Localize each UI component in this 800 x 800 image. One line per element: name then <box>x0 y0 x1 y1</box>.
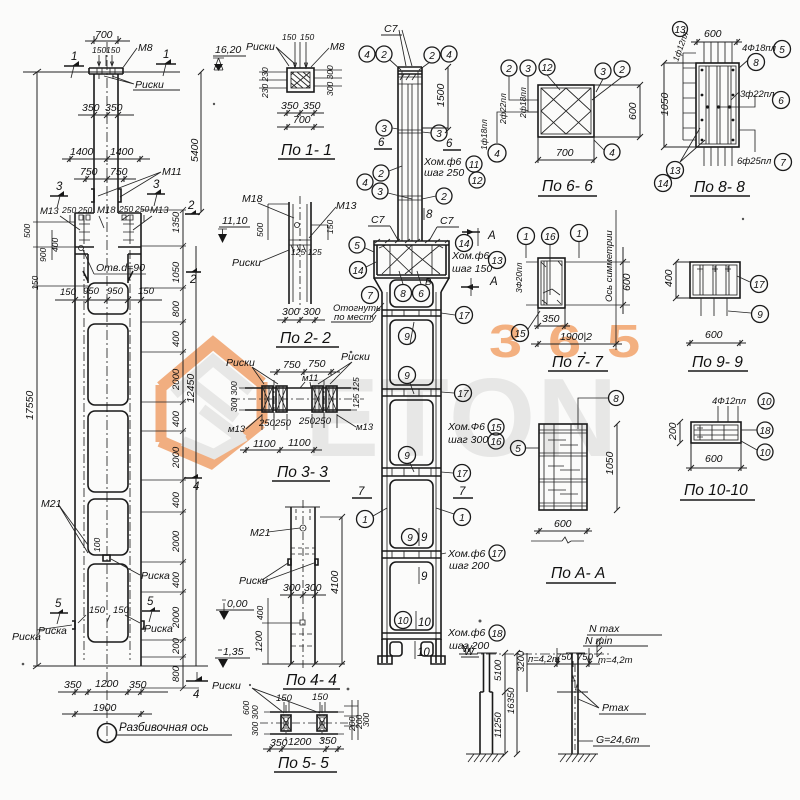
svg-text:Разбивочная ось: Разбивочная ось <box>119 722 209 734</box>
ground hatching right <box>558 753 598 755</box>
rung 1 <box>382 310 441 316</box>
svg-text:400: 400 <box>171 491 182 508</box>
svg-text:Риска: Риска <box>38 625 67 637</box>
svg-text:150: 150 <box>30 276 40 290</box>
svg-text:11: 11 <box>469 160 479 171</box>
main rect <box>696 63 739 147</box>
opening 5 <box>88 564 128 642</box>
svg-text:750: 750 <box>283 359 301 371</box>
svg-text:2000: 2000 <box>171 530 182 553</box>
svg-text:350: 350 <box>303 100 321 112</box>
cage outer verticals <box>382 292 441 640</box>
svg-text:300: 300 <box>361 713 371 727</box>
centerline <box>468 653 610 655</box>
svg-text:5: 5 <box>607 316 640 367</box>
svg-text:3: 3 <box>153 179 160 191</box>
svg-text:250: 250 <box>118 204 133 214</box>
svg-text:7: 7 <box>459 486 466 498</box>
svg-text:1050: 1050 <box>604 451 616 475</box>
svg-text:14: 14 <box>458 239 470 250</box>
svg-text:шаг 300: шаг 300 <box>448 434 488 446</box>
svg-text:8: 8 <box>613 394 619 405</box>
svg-text:1350: 1350 <box>171 211 182 233</box>
svg-text:230 230: 230 230 <box>260 67 270 99</box>
section A-A marker bottom <box>461 286 479 288</box>
section Po 3-3 <box>226 351 374 481</box>
circle 14 <box>456 235 473 252</box>
svg-text:125 125: 125 125 <box>291 247 322 257</box>
top-left circle and label <box>673 22 688 37</box>
svg-text:А: А <box>487 230 496 242</box>
dims <box>502 650 508 757</box>
panel 3 <box>390 480 433 548</box>
base line <box>33 665 208 667</box>
svg-text:200: 200 <box>171 637 182 655</box>
svg-text:10: 10 <box>418 617 431 629</box>
svg-text:950: 950 <box>107 286 124 297</box>
svg-text:150: 150 <box>60 287 77 298</box>
svg-text:900: 900 <box>38 248 48 262</box>
svg-text:По 5- 5: По 5- 5 <box>278 755 329 772</box>
svg-text:3: 3 <box>525 64 531 75</box>
left column elevation <box>12 29 254 744</box>
svg-text:М13: М13 <box>150 205 169 216</box>
svg-text:1050: 1050 <box>659 92 671 116</box>
hole marker <box>79 246 84 251</box>
svg-text:5: 5 <box>354 241 360 252</box>
svg-text:1500: 1500 <box>435 83 447 107</box>
svg-text:1200: 1200 <box>254 630 265 652</box>
svg-text:4Ф12пл: 4Ф12пл <box>712 396 747 407</box>
svg-text:1,35: 1,35 <box>223 646 244 658</box>
svg-text:М8: М8 <box>138 42 153 54</box>
axis circle <box>98 724 117 743</box>
svg-text:400: 400 <box>663 269 675 287</box>
svg-text:А: А <box>489 276 498 288</box>
opening 2 <box>88 324 128 405</box>
shaft riska plates <box>91 189 121 202</box>
svg-text:шаг 250: шаг 250 <box>424 167 464 179</box>
svg-text:1: 1 <box>163 49 169 61</box>
svg-text:9: 9 <box>404 371 410 382</box>
svg-text:По А- А: По А- А <box>551 565 605 582</box>
svg-text:4: 4 <box>193 481 199 493</box>
svg-text:150: 150 <box>300 32 314 42</box>
svg-text:т=4,2т: т=4,2т <box>598 655 633 666</box>
svg-text:В: В <box>425 277 432 288</box>
svg-text:М11: М11 <box>162 166 182 178</box>
svg-text:350: 350 <box>270 737 288 749</box>
opening 3 <box>88 411 128 492</box>
svg-text:750: 750 <box>577 652 594 663</box>
top circles 4 2 2 4 <box>359 46 375 62</box>
watermark 365 <box>489 316 640 367</box>
panel 4 <box>390 562 433 630</box>
svg-text:150: 150 <box>106 45 120 55</box>
overall dim 17550 <box>33 69 41 669</box>
svg-text:3: 3 <box>436 129 442 140</box>
svg-text:4: 4 <box>193 689 199 701</box>
svg-text:5: 5 <box>55 598 62 610</box>
svg-text:150: 150 <box>282 32 296 42</box>
svg-text:по месту: по месту <box>334 312 377 323</box>
svg-text:2: 2 <box>187 200 195 212</box>
svg-text:Хом.ф6: Хом.ф6 <box>451 250 490 262</box>
svg-text:Риски: Риски <box>341 351 370 363</box>
svg-text:500: 500 <box>22 224 32 238</box>
section Po 6-6 <box>479 59 643 196</box>
section Po 10-10 <box>667 393 774 500</box>
svg-text:С7: С7 <box>371 214 386 226</box>
svg-text:7: 7 <box>780 158 786 169</box>
svg-text:1200: 1200 <box>95 678 119 690</box>
svg-text:13: 13 <box>669 166 681 177</box>
svg-text:По 7- 7: По 7- 7 <box>552 354 604 371</box>
svg-text:4: 4 <box>446 50 452 61</box>
svg-text:Риска: Риска <box>141 570 170 582</box>
svg-text:250: 250 <box>77 205 92 215</box>
svg-text:15: 15 <box>490 423 502 434</box>
section Po 7-7 <box>512 210 634 371</box>
svg-text:300 300: 300 300 <box>250 705 260 736</box>
circles 3 6 left <box>376 120 392 136</box>
svg-text:12: 12 <box>471 176 483 187</box>
svg-text:15: 15 <box>514 329 526 340</box>
svg-text:250: 250 <box>61 205 76 215</box>
svg-text:350: 350 <box>64 679 82 691</box>
svg-text:5: 5 <box>147 596 154 608</box>
svg-text:1050: 1050 <box>171 261 182 283</box>
svg-text:250: 250 <box>298 416 316 427</box>
svg-text:17: 17 <box>456 469 468 480</box>
svg-text:9: 9 <box>757 310 763 321</box>
svg-text:9: 9 <box>404 332 410 343</box>
svg-text:1: 1 <box>71 51 77 63</box>
svg-text:Риска: Риска <box>12 631 41 643</box>
svg-text:13: 13 <box>491 256 503 267</box>
svg-text:С7: С7 <box>384 23 399 35</box>
svg-text:ETON: ETON <box>305 356 619 480</box>
circle 2 right <box>436 188 452 204</box>
corbel chamfers <box>374 278 449 292</box>
svg-text:По 6- 6: По 6- 6 <box>542 178 593 195</box>
shaft <box>398 67 422 241</box>
rung 2 <box>382 389 441 396</box>
svg-text:5100: 5100 <box>493 659 504 681</box>
svg-text:1100: 1100 <box>253 438 276 450</box>
left post <box>480 653 493 754</box>
svg-text:М21: М21 <box>250 527 270 539</box>
svg-text:По 10-10: По 10-10 <box>684 482 748 499</box>
svg-text:2: 2 <box>189 274 197 286</box>
svg-text:10: 10 <box>760 397 772 408</box>
rung 5 <box>382 633 441 639</box>
svg-text:250: 250 <box>274 418 292 429</box>
beam with loads <box>527 661 600 667</box>
svg-text:400: 400 <box>255 606 265 620</box>
svg-text:300 300: 300 300 <box>325 65 335 96</box>
circles 1 <box>357 511 374 528</box>
svg-text:шаг 150: шаг 150 <box>452 263 492 275</box>
panel 2 <box>390 400 433 465</box>
svg-text:14: 14 <box>657 179 669 190</box>
svg-text:N max: N max <box>589 623 620 635</box>
svg-text:18: 18 <box>759 426 771 437</box>
svg-text:400: 400 <box>171 571 182 588</box>
svg-text:м13: м13 <box>228 424 246 435</box>
circles 2 4 3 left mid <box>373 165 389 181</box>
svg-text:11,10: 11,10 <box>222 215 248 227</box>
svg-text:8: 8 <box>426 209 433 221</box>
svg-text:2ф18пл: 2ф18пл <box>518 87 528 119</box>
svg-text:300: 300 <box>282 306 300 318</box>
svg-text:16: 16 <box>544 232 556 243</box>
svg-text:400: 400 <box>171 410 182 427</box>
ladder left <box>683 53 696 140</box>
corbel <box>374 241 449 278</box>
svg-text:1900: 1900 <box>93 702 117 714</box>
svg-text:600: 600 <box>705 453 723 465</box>
right chain dim line <box>182 210 184 688</box>
svg-text:Риски: Риски <box>226 357 255 369</box>
svg-text:750: 750 <box>556 652 573 663</box>
svg-text:16350: 16350 <box>506 687 517 714</box>
riska plate on axis <box>103 555 110 561</box>
svg-text:300 300: 300 300 <box>229 381 239 412</box>
svg-text:250: 250 <box>258 418 276 429</box>
svg-text:М8: М8 <box>330 41 345 53</box>
svg-text:6ф25пл: 6ф25пл <box>737 156 772 167</box>
section Po 4-4 <box>239 500 345 689</box>
svg-text:Рmax: Рmax <box>602 702 630 714</box>
svg-text:Риска: Риска <box>144 623 173 635</box>
svg-text:По 2- 2: По 2- 2 <box>280 330 331 347</box>
section Po A-A grid <box>511 391 624 584</box>
svg-text:1900|2: 1900|2 <box>560 331 592 343</box>
edge riska plates <box>72 621 144 629</box>
svg-text:1400: 1400 <box>70 146 94 158</box>
svg-text:700: 700 <box>95 29 113 41</box>
svg-text:1: 1 <box>362 515 368 526</box>
svg-text:1: 1 <box>523 232 529 243</box>
svg-text:5: 5 <box>779 45 785 56</box>
svg-text:м13: м13 <box>356 422 374 433</box>
legs <box>382 639 441 663</box>
svg-text:9: 9 <box>404 451 410 462</box>
svg-text:По 8- 8: По 8- 8 <box>694 179 745 196</box>
svg-text:8: 8 <box>753 58 759 69</box>
svg-text:6: 6 <box>446 138 453 150</box>
svg-text:2ф22пл: 2ф22пл <box>498 93 508 125</box>
svg-text:950: 950 <box>83 286 100 297</box>
section Po 1-1 <box>246 32 345 159</box>
opening 4 <box>88 499 128 555</box>
ties on shaft <box>398 130 422 200</box>
right post <box>572 653 578 754</box>
svg-text:10: 10 <box>417 647 430 659</box>
svg-text:750: 750 <box>110 166 128 178</box>
svg-text:17550: 17550 <box>24 391 36 420</box>
svg-text:11250: 11250 <box>493 712 504 738</box>
svg-text:По 9- 9: По 9- 9 <box>692 354 743 371</box>
svg-text:2: 2 <box>618 65 625 76</box>
column shaft top <box>89 68 123 213</box>
svg-text:600: 600 <box>704 28 722 40</box>
svg-text:150: 150 <box>325 220 335 234</box>
svg-text:17: 17 <box>753 280 765 291</box>
svg-text:16: 16 <box>490 437 502 448</box>
circles 3 6 right <box>431 125 447 141</box>
svg-text:800: 800 <box>171 300 182 317</box>
svg-text:1: 1 <box>459 513 465 524</box>
svg-text:5: 5 <box>515 444 521 455</box>
svg-text:G=24,6т: G=24,6т <box>596 734 640 746</box>
svg-text:9: 9 <box>421 571 428 583</box>
svg-text:350: 350 <box>542 313 560 325</box>
central column reinforcement elevation <box>331 23 506 664</box>
svg-text:125 125: 125 125 <box>351 377 361 408</box>
svg-text:600: 600 <box>627 102 639 120</box>
svg-text:2: 2 <box>428 51 435 62</box>
svg-text:3ф22пл: 3ф22пл <box>740 89 775 100</box>
svg-text:4100: 4100 <box>329 570 341 594</box>
svg-text:3: 3 <box>56 181 63 193</box>
svg-text:М13: М13 <box>336 200 357 212</box>
svg-text:4Ф18пл: 4Ф18пл <box>742 43 777 54</box>
watermark logo hexagon <box>160 343 262 463</box>
svg-text:17: 17 <box>457 389 469 400</box>
branch centerlines <box>84 250 130 660</box>
svg-text:1200: 1200 <box>288 736 312 748</box>
branch tops with anchor plates <box>75 213 141 666</box>
svg-text:Отв.d=90: Отв.d=90 <box>96 262 145 274</box>
svg-text:М13: М13 <box>40 206 59 217</box>
svg-text:По 3- 3: По 3- 3 <box>277 464 328 481</box>
bottom bars <box>704 147 732 166</box>
panel A with circles 8 6 <box>390 280 433 307</box>
svg-text:1400: 1400 <box>110 146 134 158</box>
svg-text:Риски: Риски <box>232 257 261 269</box>
svg-text:2: 2 <box>380 50 387 61</box>
svg-text:5400: 5400 <box>189 138 201 162</box>
svg-text:3200: 3200 <box>516 650 527 672</box>
svg-text:9: 9 <box>407 533 413 544</box>
svg-text:По 4- 4: По 4- 4 <box>286 672 337 689</box>
svg-text:1100: 1100 <box>288 437 311 449</box>
svg-text:W: W <box>464 646 475 658</box>
svg-text:150: 150 <box>312 692 329 703</box>
circle 14 left of corbel <box>350 262 367 279</box>
svg-text:4: 4 <box>609 148 615 159</box>
section A-A marker top <box>462 231 480 233</box>
svg-text:18: 18 <box>491 629 503 640</box>
svg-text:8: 8 <box>400 289 406 300</box>
svg-text:300: 300 <box>303 306 321 318</box>
section Po 9-9 <box>663 259 769 371</box>
svg-text:800: 800 <box>171 665 182 682</box>
svg-text:2: 2 <box>505 64 512 75</box>
svg-text:Ось симметрии: Ось симметрии <box>604 230 615 302</box>
svg-text:12: 12 <box>541 63 553 74</box>
section Po 2-2 <box>232 193 357 347</box>
svg-text:350: 350 <box>319 735 337 747</box>
svg-text:600: 600 <box>554 518 572 530</box>
svg-text:500: 500 <box>255 223 265 237</box>
bolt groups <box>262 386 273 412</box>
svg-text:1: 1 <box>576 229 582 240</box>
svg-text:4: 4 <box>362 178 368 189</box>
svg-text:300: 300 <box>304 582 322 594</box>
svg-text:3: 3 <box>600 67 606 78</box>
svg-text:По 1- 1: По 1- 1 <box>281 142 332 159</box>
section marks 4 bottom <box>186 680 208 682</box>
svg-text:3: 3 <box>381 124 387 135</box>
load diagram bottom right <box>461 623 662 762</box>
svg-text:Хом.ф6: Хом.ф6 <box>447 548 486 560</box>
svg-text:6: 6 <box>418 289 424 300</box>
svg-text:шаг 200: шаг 200 <box>449 560 489 572</box>
dim 5400 <box>198 69 204 215</box>
svg-text:150: 150 <box>113 605 130 616</box>
svg-text:3Ф20пл: 3Ф20пл <box>514 262 524 293</box>
svg-text:М18: М18 <box>97 205 116 216</box>
section Po 8-8 <box>655 22 792 197</box>
svg-text:14: 14 <box>352 266 364 277</box>
ground hatching left <box>466 753 504 755</box>
svg-text:2000: 2000 <box>171 446 182 469</box>
scan speckles <box>22 103 745 691</box>
svg-text:С7: С7 <box>440 215 455 227</box>
svg-text:2: 2 <box>440 192 447 203</box>
svg-text:4: 4 <box>494 149 500 160</box>
svg-text:700: 700 <box>556 147 574 159</box>
top level line <box>23 71 180 73</box>
svg-text:6: 6 <box>378 137 385 149</box>
panel 1 <box>390 320 433 385</box>
svg-text:Риски: Риски <box>135 79 164 91</box>
section Po 5-5 <box>241 688 371 772</box>
svg-text:400: 400 <box>171 330 182 347</box>
svg-text:17: 17 <box>491 549 503 560</box>
svg-text:3: 3 <box>377 187 383 198</box>
svg-text:10: 10 <box>397 616 409 627</box>
svg-text:300: 300 <box>283 582 301 594</box>
svg-text:16,20: 16,20 <box>215 44 241 56</box>
svg-text:7: 7 <box>358 486 365 498</box>
svg-text:2: 2 <box>377 169 384 180</box>
notches <box>288 559 318 565</box>
svg-text:250: 250 <box>314 416 332 427</box>
svg-text:Риски: Риски <box>212 680 241 692</box>
svg-text:700: 700 <box>293 114 311 126</box>
svg-text:1ф18пл: 1ф18пл <box>479 119 489 150</box>
svg-text:Риски: Риски <box>246 41 275 53</box>
svg-text:350: 350 <box>105 102 123 114</box>
svg-text:Хом.ф6: Хом.ф6 <box>447 627 486 639</box>
svg-text:400: 400 <box>50 238 60 252</box>
svg-text:Хом.Ф6: Хом.Ф6 <box>447 421 485 433</box>
circle 5 left of corbel <box>349 237 365 253</box>
rung 4 <box>382 551 441 558</box>
svg-text:9: 9 <box>421 532 428 544</box>
svg-text:7: 7 <box>367 291 373 302</box>
inner edges / openings <box>75 254 141 283</box>
svg-text:6: 6 <box>778 96 784 107</box>
svg-text:150: 150 <box>92 45 106 55</box>
svg-text:10: 10 <box>759 448 771 459</box>
opening 1 <box>88 283 128 314</box>
svg-text:750: 750 <box>308 358 326 370</box>
